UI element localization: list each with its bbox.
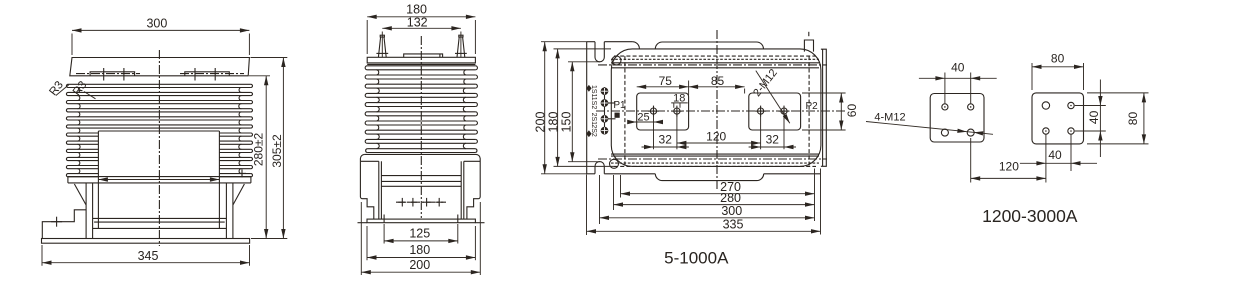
front view: cap slot tab right (hidden) [185, 72, 230, 76]
front view: base plate [42, 239, 250, 244]
svg-text:25: 25 [637, 112, 649, 124]
plate B holes [1042, 102, 1049, 109]
front view: cap hidden centerlines [76, 73, 140, 75]
plan view: dimension 120 (plan) [677, 142, 761, 144]
svg-text:32: 32 [659, 133, 673, 147]
side view: legs [378, 161, 380, 219]
side view: centerline [420, 36, 422, 218]
front view: right leg [232, 183, 234, 239]
plan view: stud at top right [804, 40, 813, 52]
terminal plate B (80x80) [1032, 93, 1084, 144]
front view: dimension 300 (top width) [71, 34, 73, 56]
svg-text:300: 300 [146, 17, 167, 31]
plate B: dimension 80 right [1087, 92, 1149, 94]
plan view: secondary terminal riser line [604, 87, 606, 135]
plan view: dimension 32 left [653, 115, 655, 150]
svg-text:305±2: 305±2 [270, 134, 284, 168]
plan view: dimension 60 (pad height) [802, 92, 846, 94]
svg-text:80: 80 [1051, 52, 1065, 66]
plan view: right end cap [821, 49, 826, 166]
svg-text:335: 335 [723, 218, 744, 232]
svg-text:P2: P2 [805, 101, 818, 112]
svg-text:300: 300 [721, 204, 742, 218]
plan view: terminal links to block [605, 102, 616, 104]
plan view: dimension 85 [744, 89, 746, 94]
svg-text:4-M12: 4-M12 [874, 111, 905, 123]
front view: extension lines right [251, 57, 288, 59]
front view: left leg [85, 183, 87, 239]
svg-text:40: 40 [1048, 148, 1062, 162]
side view: rails [381, 175, 461, 177]
plan view: primary pad P2 [749, 93, 801, 130]
front view: core window [98, 130, 219, 132]
plan view: dimension 75 [688, 81, 690, 96]
svg-text:280±2: 280±2 [251, 133, 265, 167]
side view: center tab on cap [404, 54, 443, 57]
svg-text:80: 80 [1126, 112, 1140, 126]
side view: hidden hole centerline with cross marks [396, 201, 446, 203]
plate A holes [942, 104, 948, 110]
plate A: dimension 40 (hole spacing) [944, 73, 946, 104]
front view: dimension 305±2 (overall height) [282, 58, 284, 239]
side view: dimension 125 [383, 224, 385, 244]
terminal plate A (80x80) [930, 94, 984, 143]
svg-text:75: 75 [659, 74, 673, 88]
svg-text:132: 132 [407, 16, 428, 30]
plan view: horizontal centerline [596, 110, 846, 112]
front view: lower cross members [93, 217, 227, 219]
svg-text:32: 32 [766, 133, 780, 147]
plan view: primary pad P1 [637, 93, 689, 130]
svg-text:40: 40 [951, 60, 965, 74]
plan view: dimension 200 (plate width) [544, 42, 546, 174]
side view: terminal stud right [460, 32, 462, 58]
side view: terminal stud left [381, 32, 383, 58]
plan view: tank body outline [611, 49, 821, 166]
svg-text:200: 200 [409, 258, 430, 272]
svg-text:200: 200 [534, 112, 548, 133]
front view: shelf width arrows [98, 179, 219, 181]
plan view: plate bottom edge [587, 173, 595, 175]
side view: dimension 180 (foot plate) [366, 226, 368, 260]
svg-text:1200-3000A: 1200-3000A [982, 206, 1078, 226]
front view: cooling fins stack [66, 84, 68, 87]
side view: foot bolt marks [383, 215, 385, 223]
front view: cap tick marks [103, 68, 105, 81]
svg-text:5-1000A: 5-1000A [664, 249, 729, 268]
front view: small cross mark right [238, 172, 246, 174]
svg-text:180: 180 [547, 112, 561, 133]
front view: dimension 280±2 (fin stack height) [265, 76, 267, 239]
plan view: hidden cover side edges [624, 56, 626, 166]
plan view: plate right edge below cap [814, 169, 816, 222]
plan view: vertical centerline [716, 30, 718, 190]
side view: dimension 180 (cap width) [366, 20, 368, 54]
front view: earthing cross mark [51, 221, 62, 223]
front view: centerline [158, 50, 160, 246]
plan view: top mounting slot [595, 42, 604, 62]
svg-text:60: 60 [845, 104, 859, 118]
svg-text:85: 85 [711, 74, 725, 88]
svg-text:280: 280 [720, 191, 741, 205]
side view: shoulder slab [365, 153, 476, 155]
plan view: bottom belly bump [655, 174, 763, 181]
side view: dimension 200 (overall) [360, 202, 362, 275]
svg-text:125: 125 [409, 226, 430, 240]
plan view: dimension 180 (tank width) [557, 49, 559, 166]
svg-text:120: 120 [999, 159, 1019, 173]
plan view: top wall lines [614, 55, 816, 57]
plan view: dimension 300 [600, 217, 815, 219]
dimension 120 between plates [970, 138, 972, 183]
plan view: plug circle lower [610, 159, 619, 168]
side view: cooling fins stack [365, 66, 367, 70]
plate B: dimension 80 top [1031, 63, 1033, 90]
plan view: dimension 335 [587, 230, 821, 232]
svg-text:18: 18 [673, 93, 685, 105]
side view: top cap [367, 57, 475, 63]
plan view: plug circle upper [612, 56, 621, 65]
plan view: left extension lines [541, 41, 587, 43]
plan view: secondary terminals 1S1 1S2 2S1 2S2 [601, 88, 608, 95]
plan view: dimension 280 [614, 204, 815, 206]
front view: earthing bracket [42, 210, 86, 239]
svg-text:120: 120 [706, 130, 726, 144]
svg-text:40: 40 [1087, 110, 1101, 124]
plan view: edge marker diamond lower [586, 130, 591, 137]
plan view: base plate left edge and end flange [586, 42, 588, 174]
side view: housing walls and feet steps [360, 159, 373, 220]
front view: fin bottom shelf [68, 176, 251, 178]
plan view: dimension 32 right [760, 117, 762, 150]
plan view: bottom extension lines [586, 175, 588, 236]
side view: foot plate [367, 219, 475, 223]
front view: top cap (insulator head) [70, 58, 250, 76]
svg-text:180: 180 [406, 3, 427, 17]
svg-text:2S1: 2S1 [590, 113, 597, 126]
plan view: dimension 18 (hole) [671, 102, 688, 104]
front view: cap slot tab left (hidden) [90, 72, 135, 76]
svg-text:180: 180 [409, 243, 430, 257]
svg-text:2S2: 2S2 [590, 124, 597, 137]
plan view: dimension 270 [621, 193, 815, 195]
plan view: bottom wall lines [611, 153, 819, 155]
svg-text:150: 150 [560, 112, 574, 133]
svg-text:P1: P1 [613, 100, 626, 111]
plan view: dimension 150 (slot span) [571, 62, 573, 162]
plan view: bottom mounting slot [595, 162, 604, 174]
plate B: dimension 40 bottom [1070, 134, 1072, 171]
svg-text:1S2: 1S2 [590, 97, 597, 110]
svg-text:345: 345 [138, 249, 159, 263]
plan view: top cover bump [655, 42, 763, 49]
plan view: dimension 25 [628, 121, 663, 123]
svg-text:1S1: 1S1 [590, 85, 597, 98]
plate B: dimension 40 right [1075, 105, 1106, 107]
front view: dimension 345 (base width) [41, 245, 43, 266]
plan view: edge marker diamond upper [586, 85, 591, 92]
side view: dimension 132 (terminal spacing) [382, 27, 461, 29]
